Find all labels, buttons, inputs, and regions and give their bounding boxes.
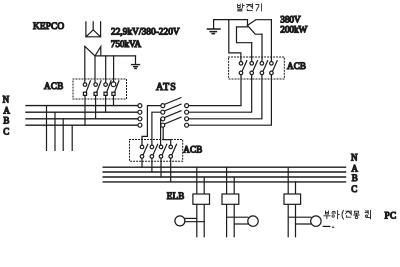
bus B main horizontal	[103, 176, 345, 178]
breaker ACB1 dashed enclosure	[73, 79, 127, 99]
wire generator neutral to ACB3 pole1	[229, 20, 241, 62]
breaker ACB3 pole3	[260, 61, 268, 75]
bus C left horizontal	[26, 124, 138, 126]
svg-text:B: B	[352, 173, 358, 183]
bus N main horizontal	[103, 166, 345, 168]
label load 부하(전동 및 PC	[324, 210, 371, 219]
wire generator phase to ACB3 pole2	[251, 43, 253, 62]
bus A main horizontal	[103, 171, 345, 173]
breaker ACB2 pole1	[140, 144, 148, 158]
svg-text:750kVA: 750kVA	[111, 40, 142, 50]
bus C main horizontal	[103, 181, 345, 183]
ATS normal-side contact row1	[138, 104, 142, 108]
transformer T1 primary delta winding	[86, 22, 101, 37]
breaker ACB1 pole4 neutral	[111, 81, 119, 95]
ATS normal-side contact row2	[138, 110, 142, 114]
wire ACB1 pole2 to bus B	[95, 95, 97, 118]
transformer T1 secondary wye winding	[85, 46, 136, 56]
ATS blade row2	[164, 104, 181, 111]
svg-text:ACB: ACB	[287, 61, 306, 71]
ATS normal-side contact row4	[138, 123, 142, 127]
ATS common contact row2	[161, 110, 165, 114]
breaker ACB1 pole1	[83, 81, 90, 95]
svg-text:PC: PC	[385, 212, 397, 222]
wire feeder2 from bus B	[233, 177, 235, 237]
ATS common contact row4	[161, 123, 165, 127]
svg-text:N: N	[3, 95, 10, 105]
wire stub feeder from bus C	[71, 125, 73, 150]
ATS common contact row1	[161, 104, 165, 108]
breaker ACB2 pole4	[169, 144, 177, 158]
ground transformer neutral	[132, 65, 140, 69]
ATS blade row3	[164, 111, 181, 118]
ATS emergency-side contact row3	[185, 117, 189, 121]
label generator 발전기	[238, 4, 262, 11]
breaker ACB1 pole2	[94, 81, 101, 95]
wire ACB2 pole3 to main bus B	[160, 158, 162, 177]
breaker ACB3 pole2	[250, 61, 258, 75]
ground generator neutral	[208, 29, 221, 34]
wire ACB2 pole4 to main bus C	[170, 158, 172, 182]
wire generator phase to ACB3 pole3	[261, 34, 263, 61]
breaker ACB1 pole3	[104, 81, 111, 95]
wire ACB2 pole2 to main bus A	[151, 158, 153, 172]
svg-text:ACB: ACB	[183, 144, 202, 154]
wire stub feeder from bus N	[46, 106, 48, 151]
svg-text:ELB: ELB	[167, 191, 185, 201]
wire ATS common row3 to ACB2 pole3	[160, 119, 162, 145]
wire ATS common row1 to ACB2 pole1	[142, 106, 161, 145]
breaker ACB2 pole3	[159, 144, 167, 158]
load motor M3	[311, 216, 321, 226]
wire secondary neutral to ACB1 pole4	[113, 56, 115, 82]
breaker ACB2 dashed enclosure	[130, 140, 183, 162]
wire secondary phase to ACB1 pole1	[84, 46, 86, 83]
svg-text:A: A	[3, 106, 10, 116]
wire ACB3 pole3 to ATS emergency row3	[189, 75, 262, 119]
wire motor M2 link upper	[227, 216, 248, 218]
wire ACB1 pole1 to bus C	[84, 95, 86, 125]
wire generator neutral to ground	[214, 20, 229, 29]
wire neutral to ground	[135, 56, 137, 64]
svg-text:ATS: ATS	[156, 82, 177, 93]
breaker ELB3	[284, 194, 301, 204]
wire ACB3 pole1 to ATS emergency row1	[189, 75, 241, 106]
ATS blade row1	[164, 98, 181, 105]
wire motor M3 link lower	[296, 223, 311, 225]
load motor M2	[248, 216, 258, 226]
wire stub feeder from bus B	[62, 119, 64, 151]
wire ATS common row4 to ACB2 pole4	[163, 127, 171, 145]
breaker ACB3 pole1	[239, 61, 247, 75]
wire feeder2 from bus N	[226, 167, 228, 237]
svg-text:C: C	[351, 184, 357, 194]
label load continuation dash	[323, 225, 330, 227]
wire ACB1 pole3 to bus A	[105, 95, 107, 112]
svg-text:KEPCO: KEPCO	[33, 22, 64, 32]
wire feeder3 from bus C	[295, 182, 297, 237]
svg-text:22,9kV/380-220V: 22,9kV/380-220V	[111, 28, 180, 38]
svg-text:380V: 380V	[280, 15, 301, 25]
svg-text:C: C	[3, 126, 9, 136]
wire motor M3 link upper	[288, 216, 311, 218]
ATS emergency-side contact row2	[185, 110, 189, 114]
svg-text:ACB: ACB	[44, 81, 64, 91]
svg-text:200kW: 200kW	[280, 26, 307, 36]
wire generator phase to ACB3 pole4	[270, 20, 272, 62]
wire feeder1 from bus N	[196, 167, 198, 237]
breaker ACB3 pole4	[270, 61, 278, 75]
wire secondary phase to ACB1 pole2	[94, 56, 96, 83]
bus B left horizontal	[26, 118, 138, 120]
generator G1 wye winding	[229, 20, 272, 43]
svg-text:N: N	[351, 152, 358, 162]
wire motor M1 link lower	[185, 221, 204, 223]
breaker ACB2 pole2	[150, 144, 158, 158]
wire motor M2 link lower	[234, 223, 248, 225]
ATS blade row4	[164, 117, 181, 124]
wire ACB3 pole2 to ATS emergency row2	[189, 75, 252, 113]
bus A left horizontal	[26, 111, 138, 113]
wire ACB1 pole4 to bus N	[113, 95, 115, 105]
breaker ACB3 dashed enclosure	[229, 57, 285, 79]
breaker ELB2	[222, 194, 239, 204]
wire ATS common row2 to ACB2 pole2	[152, 112, 161, 145]
wire feeder3 from bus N	[287, 167, 289, 237]
label load continuation dot	[333, 226, 334, 228]
ATS emergency-side contact row1	[185, 104, 189, 108]
ATS normal-side contact row3	[138, 117, 142, 121]
wire ACB2 pole1 to main bus N	[141, 158, 143, 167]
ATS common contact row3	[161, 117, 165, 121]
wire ACB3 pole4 to ATS emergency row4	[189, 75, 272, 126]
breaker ELB1	[193, 194, 210, 204]
wire secondary phase to ACB1 pole3	[105, 56, 107, 83]
wire feeder1 from bus B	[203, 177, 205, 237]
wire stub feeder from bus A	[54, 112, 56, 150]
bus N left horizontal	[26, 105, 138, 107]
ATS emergency-side contact row4	[185, 123, 189, 127]
wire motor M1 link upper	[185, 217, 197, 219]
load motor M1	[175, 216, 185, 226]
svg-text:B: B	[3, 116, 9, 126]
